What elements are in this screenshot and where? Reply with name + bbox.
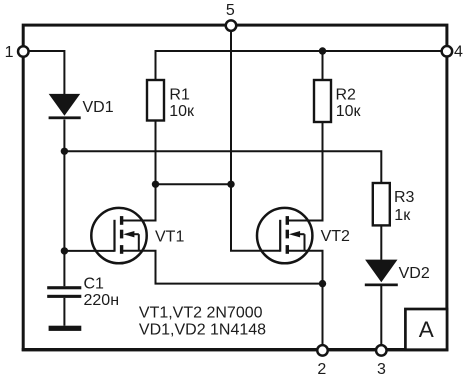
svg-text:4: 4 [454, 44, 463, 61]
svg-text:C1: C1 [84, 275, 105, 292]
svg-text:VT2: VT2 [321, 228, 350, 245]
svg-text:VD1,VD2 1N4148: VD1,VD2 1N4148 [139, 321, 266, 338]
svg-text:R2: R2 [336, 87, 357, 104]
svg-text:A: A [419, 317, 434, 342]
svg-text:R3: R3 [394, 189, 415, 206]
svg-text:220н: 220н [84, 292, 120, 309]
svg-text:VD2: VD2 [399, 265, 430, 282]
svg-text:10к: 10к [336, 103, 362, 120]
svg-text:VD1: VD1 [83, 99, 114, 116]
svg-text:10к: 10к [169, 103, 195, 120]
svg-text:5: 5 [226, 2, 235, 19]
svg-text:2: 2 [317, 361, 326, 378]
svg-text:3: 3 [377, 361, 386, 378]
svg-text:1к: 1к [394, 207, 411, 224]
svg-text:VT1: VT1 [155, 228, 184, 245]
svg-text:1: 1 [5, 44, 14, 61]
svg-text:R1: R1 [169, 87, 190, 104]
svg-text:VT1,VT2 2N7000: VT1,VT2 2N7000 [139, 304, 263, 321]
